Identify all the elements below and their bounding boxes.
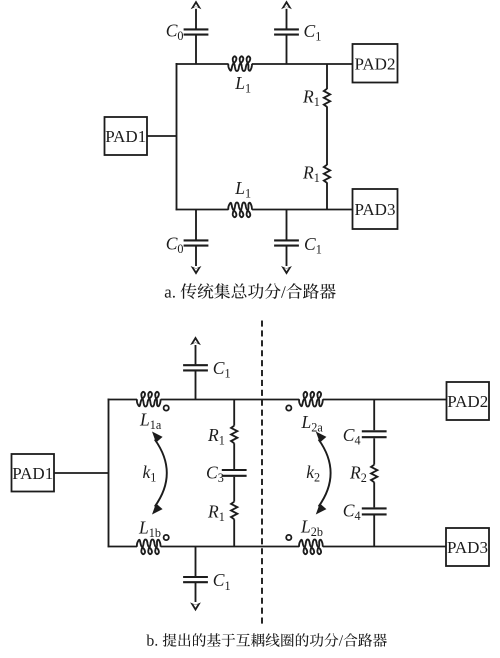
resistor R1 (lower) (324, 165, 330, 183)
wire: R1 chain lower lead (326, 183, 328, 210)
wire: C1 bottom lead (286, 210, 288, 240)
wire: PAD1 lead (circuit b) (54, 472, 109, 474)
wire: left vertical bus (circuit b) (108, 399, 110, 548)
capacitor C3 (222, 470, 247, 476)
capacitor C0 (top) (184, 29, 209, 34)
svg-text:PAD2: PAD2 (355, 55, 396, 74)
polarity dot of L1b (164, 535, 169, 540)
polarity dot of L2b (286, 535, 291, 540)
inductor L1b (137, 540, 161, 555)
capacitor C4 (upper) (362, 431, 387, 437)
wire: bottom rail to L1b (108, 546, 137, 548)
wire: C1 top to arrow (286, 9, 288, 29)
wire: C1 bottom lead (b) (195, 547, 197, 577)
ground arrow below C1 (281, 266, 292, 275)
wire: C0 top to arrow (195, 9, 197, 29)
svg-text:PAD1: PAD1 (12, 464, 53, 483)
resistor R1 (b lower) (231, 502, 237, 520)
resistor R2 (371, 465, 377, 483)
wire: C0 bottom lead (195, 210, 197, 240)
inductor L1a (137, 392, 161, 407)
svg-text:PAD3: PAD3 (355, 200, 396, 219)
inductor L2a (299, 392, 323, 407)
wire: C1 top to arrow (b) (195, 345, 197, 364)
inductor L1 (top) (228, 56, 252, 71)
polarity dot of L1a (164, 405, 169, 410)
wire: C4 to R2 (373, 438, 375, 464)
wire: R1 to C3 (233, 443, 235, 469)
port PAD1 (circuit a) (105, 117, 148, 155)
ground arrow below C1 (b bottom) (190, 602, 201, 611)
port PAD2 (circuit a) (353, 44, 398, 83)
svg-text:PAD3: PAD3 (447, 538, 488, 557)
port arrow above C1 (b top) (190, 336, 201, 345)
port PAD1 (circuit b) (12, 454, 55, 492)
wire: top rail right segment (252, 63, 353, 65)
wire: PAD1 lead (circuit a) (147, 135, 177, 137)
wire: bottom rail L1b to L2b (161, 546, 300, 548)
caption b: 提出的基于互耦线圈的功分/合路器 (146, 633, 387, 647)
capacitor C1 (b bottom) (183, 577, 208, 582)
wire: C1 top lead (286, 35, 288, 64)
port PAD3 (circuit a) (353, 189, 398, 229)
ground arrow below C0 (191, 266, 202, 275)
wire: left vertical bus (circuit a) (176, 63, 178, 210)
wire: C4-R2-C4 chain bottom lead (373, 516, 375, 547)
wire: C1 top lead (b) (195, 371, 197, 399)
inductor L1 (bottom) (228, 203, 252, 218)
capacitor C1 (bottom) (274, 240, 299, 245)
wire: R1-C3-R1 chain bottom lead (233, 519, 235, 546)
wire: R1-C3-R1 chain top lead (233, 400, 235, 426)
wire: top rail left segment (176, 63, 229, 65)
port PAD2 (circuit b) (447, 382, 490, 420)
resistor R1 (b upper) (231, 426, 237, 444)
wire: top rail to L1a (108, 399, 137, 401)
wire: C4-R2-C4 chain top lead (373, 400, 375, 431)
port arrow above C1 (281, 0, 292, 9)
coupling arrow k1 (152, 432, 167, 515)
wire: C1 bottom to arrow (b) (195, 583, 197, 602)
capacitor C1 (b top) (183, 365, 208, 370)
wire: C0 bottom to arrow (195, 246, 197, 266)
polarity dot of L2a (286, 405, 291, 410)
inductor L2b (299, 540, 323, 555)
capacitor C0 (bottom) (184, 240, 209, 245)
svg-text:PAD2: PAD2 (447, 392, 488, 411)
svg-text:PAD1: PAD1 (105, 127, 146, 146)
caption a: 传统集总功分/合路器 (165, 283, 336, 299)
wire: bottom rail right segment (252, 209, 353, 211)
capacitor C1 (top) (274, 29, 299, 34)
wire: bottom rail left segment (176, 209, 229, 211)
wire: C1 bottom to arrow (286, 246, 288, 266)
port PAD3 (circuit b) (446, 528, 489, 566)
wire: top rail L2a to PAD2 (323, 399, 447, 401)
wire: bottom rail L2b to PAD3 (323, 546, 446, 548)
wire: R2 to C4 (373, 482, 375, 507)
wire: R1 chain middle segment (326, 107, 328, 166)
wire: C0 top lead (195, 35, 197, 64)
resistor R1 (upper) (324, 89, 330, 107)
coupling arrow k2 (316, 432, 331, 515)
wire: R1 chain upper lead (326, 64, 328, 89)
wire: C3 to R1 (233, 477, 235, 502)
capacitor C4 (lower) (362, 508, 387, 514)
port arrow above C0 (191, 0, 202, 9)
wire: top rail L1a to L2a (161, 399, 300, 401)
dashed symmetry line (261, 321, 263, 626)
